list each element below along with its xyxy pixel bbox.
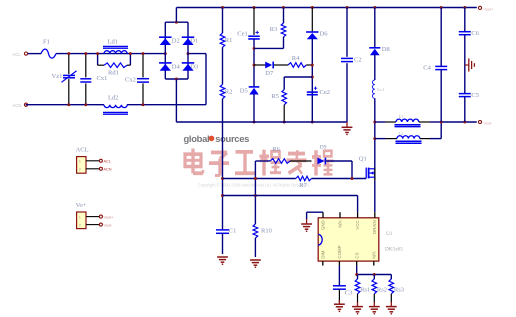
svg-text:DRAIN: DRAIN — [372, 220, 377, 234]
svg-text:D9: D9 — [320, 145, 327, 151]
svg-text:R10: R10 — [261, 228, 272, 235]
svg-text:CS: CS — [354, 252, 359, 258]
svg-text:sources: sources — [215, 133, 249, 144]
svg-text:ACN: ACN — [104, 168, 112, 172]
svg-text:R4: R4 — [292, 55, 300, 62]
svg-text:Rd1: Rd1 — [108, 70, 119, 77]
svg-text:Ld2: Ld2 — [108, 95, 118, 102]
svg-text:VCC: VCC — [355, 220, 360, 229]
svg-text:D1: D1 — [190, 37, 198, 44]
svg-text:Vo+: Vo+ — [76, 202, 87, 209]
svg-text:global: global — [184, 133, 210, 144]
svg-text:D8: D8 — [382, 46, 390, 53]
svg-text:R7: R7 — [299, 182, 307, 189]
svg-text:Cx1: Cx1 — [97, 75, 108, 82]
svg-text:U1: U1 — [386, 231, 393, 237]
svg-text:C6: C6 — [471, 30, 479, 37]
svg-text:D2: D2 — [172, 37, 180, 44]
svg-text:R2: R2 — [225, 89, 233, 96]
svg-text:R1: R1 — [225, 37, 233, 44]
svg-text:Vout+: Vout+ — [484, 7, 495, 11]
svg-text:N/A: N/A — [371, 251, 376, 258]
svg-text:ACL: ACL — [13, 52, 22, 57]
svg-text:R6: R6 — [272, 146, 280, 153]
svg-text:L2: L2 — [399, 131, 404, 136]
svg-text:Ce2: Ce2 — [320, 89, 330, 96]
svg-text:D5: D5 — [240, 88, 248, 95]
svg-text:Q1: Q1 — [359, 156, 367, 163]
svg-text:Ce1: Ce1 — [237, 31, 247, 38]
svg-text:DK5x65: DK5x65 — [385, 247, 403, 253]
svg-text:R3: R3 — [270, 26, 278, 33]
svg-text:C5: C5 — [471, 92, 479, 99]
svg-text:C3: C3 — [345, 290, 353, 297]
svg-text:Vz1: Vz1 — [52, 73, 63, 80]
svg-text:COMP: COMP — [337, 245, 342, 258]
svg-text:R5: R5 — [271, 93, 279, 100]
svg-text:DIM: DIM — [320, 250, 325, 258]
svg-text:C2: C2 — [354, 57, 362, 64]
svg-text:L1: L1 — [399, 114, 404, 119]
svg-text:D7: D7 — [265, 70, 274, 77]
svg-text:D6: D6 — [320, 30, 329, 37]
svg-text:D3: D3 — [190, 63, 198, 70]
svg-text:Copyright © 2000-2008 eMedia A: Copyright © 2000-2008 eMedia Asia Ltd. A… — [198, 183, 310, 188]
svg-text:ACL: ACL — [76, 147, 89, 154]
svg-text:Rs2: Rs2 — [377, 287, 387, 294]
svg-text:Rs1: Rs1 — [360, 287, 370, 294]
svg-text:ACL: ACL — [104, 160, 111, 164]
svg-text:Vout-: Vout- — [104, 223, 114, 227]
svg-text:GND: GND — [321, 220, 326, 230]
svg-text:N/A: N/A — [338, 220, 343, 227]
svg-text:Lc1: Lc1 — [377, 87, 385, 92]
svg-text:ACN: ACN — [13, 103, 22, 108]
svg-text:Vout+: Vout+ — [104, 215, 115, 219]
svg-text:C1: C1 — [229, 228, 237, 235]
svg-text:D4: D4 — [172, 63, 181, 70]
svg-text:Rs3: Rs3 — [394, 287, 404, 294]
svg-text:Ld1: Ld1 — [108, 39, 118, 46]
svg-text:C4: C4 — [423, 65, 431, 72]
svg-text:Cx2: Cx2 — [125, 77, 136, 84]
svg-text:Vout-: Vout- — [484, 122, 494, 126]
svg-text:F1: F1 — [43, 39, 50, 46]
